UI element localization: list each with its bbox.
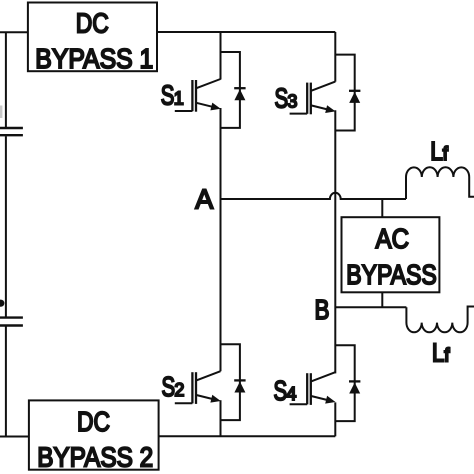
label S1: [161, 79, 184, 110]
svg-text:4: 4: [286, 384, 296, 404]
wire: [5, 326, 7, 436]
wire: right leg upper segment: [334, 32, 336, 82]
svg-text:BYPASS 2: BYPASS 2: [37, 441, 153, 472]
svg-text:f: f: [444, 345, 450, 366]
svg-text:DC: DC: [77, 406, 110, 437]
label S2: [162, 371, 185, 402]
block AC BYPASS: [342, 217, 440, 292]
svg-text:AC: AC: [376, 223, 410, 254]
wire: AC BYPASS top connector: [381, 199, 383, 217]
svg-text:S: S: [275, 83, 289, 114]
svg-text:B: B: [315, 294, 330, 325]
transistor S4 (IGBT): [290, 372, 336, 405]
inductor Lf (bottom): [406, 307, 474, 333]
transistor S1 (IGBT): [175, 79, 221, 112]
svg-text:3: 3: [287, 92, 297, 112]
svg-text:L: L: [432, 337, 445, 367]
svg-text:S: S: [161, 79, 175, 110]
svg-text:2: 2: [174, 380, 184, 400]
wire: bottom-left to DC BYPASS 2: [0, 436, 29, 438]
svg-text:DC: DC: [76, 8, 109, 39]
label S3: [275, 83, 298, 114]
freewheeling diode of S1: [221, 52, 246, 128]
capacitor C2 (lower DC-link): [0, 318, 23, 326]
wire: DC input top-left to DC BYPASS 1: [0, 31, 28, 33]
wire: left leg upper segment (top rail to S1): [220, 32, 222, 80]
wire: AC BYPASS bottom connector: [381, 292, 383, 307]
wire: node A output with hop over right leg: [221, 193, 407, 199]
cropped label fragment near C2: [0, 300, 4, 307]
wire: bottom rail from DC BYPASS 2 to right leg: [159, 435, 336, 437]
wire: [5, 136, 7, 317]
svg-text:f: f: [443, 144, 449, 165]
svg-text:S: S: [274, 375, 288, 406]
wire: left leg lower segment (S2 emitter to bottom rail): [220, 400, 222, 436]
freewheeling diode of S3: [335, 55, 360, 131]
block DC BYPASS 1: [28, 3, 157, 75]
svg-text:L: L: [430, 136, 443, 166]
wire: right leg middle segment (S3 emitter through node B to S4): [334, 110, 336, 373]
wire: right leg lower segment (S4 emitter to bottom rail): [334, 402, 336, 436]
svg-text:1: 1: [174, 88, 184, 108]
svg-text:BYPASS: BYPASS: [346, 259, 437, 290]
cropped label fragment near C1: [0, 106, 2, 119]
wire: top rail from DC BYPASS 1 to right leg: [157, 31, 335, 33]
label Lf (bottom): [432, 337, 450, 367]
block DC BYPASS 2: [29, 400, 159, 472]
svg-text:A: A: [195, 184, 213, 215]
svg-text:BYPASS 1: BYPASS 1: [35, 43, 153, 74]
wire: node B output: [335, 306, 406, 308]
wire: left leg middle segment (S1 emitter through node A to S2): [220, 108, 222, 371]
capacitor C1 (upper DC-link): [0, 128, 23, 135]
label S4: [274, 375, 297, 406]
transistor S2 (IGBT): [175, 371, 221, 404]
transistor S3 (IGBT): [290, 82, 336, 115]
wire: DC-link left bus (vertical): [5, 32, 7, 127]
label Lf (top): [430, 136, 448, 166]
svg-text:S: S: [162, 371, 176, 402]
freewheeling diode of S4: [335, 345, 360, 421]
freewheeling diode of S2: [221, 344, 246, 420]
inductor Lf (top): [406, 167, 474, 199]
